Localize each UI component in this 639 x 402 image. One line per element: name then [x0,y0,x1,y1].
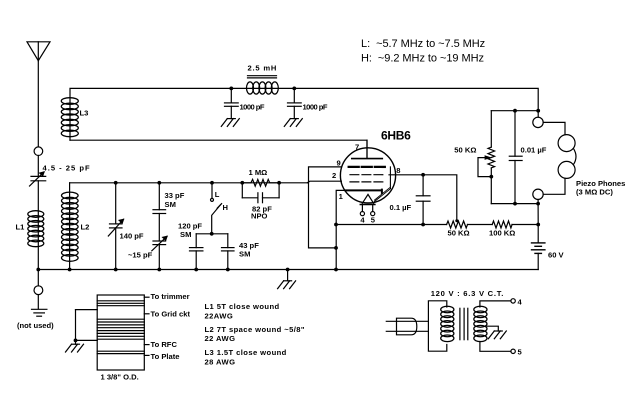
svg-text:~15 pF: ~15 pF [128,251,153,260]
not-used terminal [32,270,47,317]
wire to battery [512,224,538,226]
capacitor 140 pF variable [108,183,123,270]
wire terminal to trimmer cap [37,156,39,177]
coil form L2 turns [97,319,144,339]
antenna [27,42,50,61]
capacitor 33 pF SM [153,183,166,241]
node 0.01uF bottom [513,202,517,206]
svg-text:4: 4 [360,215,365,224]
resistor 1 Mohm grid leak [242,179,278,186]
inductor L3 [61,98,78,137]
svg-text:SM: SM [165,200,176,209]
node coil form ground [74,339,78,343]
AC plug [386,318,428,335]
capacitor 0.1 uF [416,175,430,225]
transformer label [431,289,504,298]
plate bar [352,158,383,160]
node rail x115.7 [114,268,118,272]
pin 9 wire [309,167,342,248]
svg-text:60 V: 60 V [548,251,565,260]
inductor L1 [28,211,44,247]
pot wiper [478,156,491,177]
svg-text:1: 1 [339,192,344,201]
svg-text:5: 5 [518,348,523,357]
node grid leak left [240,181,244,185]
svg-text:L: ~5.7 MHz to ~7.5 MHz: L: ~5.7 MHz to ~7.5 MHz [361,38,485,50]
node grid leak right [277,181,281,185]
svg-text:To Grid ckt: To Grid ckt [151,309,191,318]
svg-text:6HB6: 6HB6 [381,129,411,143]
suppressor tie vertical [389,167,391,189]
coil form body [97,295,144,370]
transformer primary bracket [428,301,446,351]
node rail cathode [334,268,338,272]
node choke left [229,87,233,91]
svg-text:SM: SM [239,250,250,259]
grid G2 dashed [350,174,384,176]
node rail x38 [36,268,40,272]
svg-text:0.1 µF: 0.1 µF [390,203,412,212]
phone jack top [533,111,543,128]
node rail x196.2 [194,268,198,272]
capacitor C 1000 pF left [225,88,239,118]
svg-text:1 MΩ: 1 MΩ [249,168,268,177]
node pin9/cathode join [334,246,338,250]
ground at center tap [488,331,506,339]
node 0.1uF top [421,173,425,177]
node rail x69.6 [68,268,72,272]
svg-text:L3 1.5T close wound: L3 1.5T close wound [205,348,287,357]
coil form L3 turns [97,351,144,353]
svg-text:22 AWG: 22 AWG [205,334,236,343]
svg-text:SM: SM [180,230,191,239]
battery 60 V [532,225,545,270]
node phones bottom [536,202,540,206]
node 33pF top [157,181,161,185]
svg-text:4: 4 [518,297,523,306]
secondary lead terminal 5 [480,342,515,354]
svg-text:140 pF: 140 pF [120,232,144,241]
capacitor 4.5-25 pF trimmer [30,172,46,186]
svg-text:28 AWG: 28 AWG [205,357,236,366]
node 140pF top [114,181,118,185]
svg-text:2.5 mH: 2.5 mH [248,64,278,73]
suppressor tie leaf [375,188,391,202]
antenna terminal [34,147,43,156]
wire top rail [70,88,538,140]
grid G3 dashed [349,166,385,168]
svg-text:L1: L1 [16,222,26,231]
inductor RFC 2.5 mH [247,76,279,94]
wire switch to padder caps [196,233,228,235]
wire phones network bottom [491,203,538,205]
inductor L2 [62,183,79,270]
svg-text:8: 8 [396,166,400,175]
node switch bottom [210,232,214,236]
tap to grid ckt [144,313,149,315]
pin 1 wire [336,190,345,269]
phone jack bottom [533,189,543,224]
wire antenna lead [37,61,39,147]
svg-text:NPO: NPO [251,212,268,221]
tap to RFC [144,344,149,346]
svg-text:0.01 µF: 0.01 µF [521,145,547,154]
svg-text:L2 7T space wound ~5/8": L2 7T space wound ~5/8" [205,325,305,334]
resistor 50 Kohm regen pot [447,221,468,228]
node wiper tie [489,175,493,179]
coil form L1 turns [97,301,144,306]
tube 6HB6 envelope U1 [340,148,395,203]
node rail ground tap [286,268,290,272]
node rail x227.8 [226,268,230,272]
node choke right [292,87,296,91]
tap to trimmer [144,296,149,298]
svg-text:L3: L3 [80,109,89,118]
svg-text:33 pF: 33 pF [165,191,185,200]
switch L/H band select [211,183,222,234]
svg-text:100 KΩ: 100 KΩ [489,228,515,237]
wire trimmer to L1 and bottom rail [37,181,39,270]
wire phones network top [491,110,538,112]
capacitor ~15 pF variable [152,236,167,269]
svg-text:(not used): (not used) [17,321,54,330]
wire bottom ground rail [38,269,538,271]
transformer core [460,308,468,339]
capacitor 0.01 uF [509,111,522,204]
svg-text:L2: L2 [81,222,90,231]
wire grid rail [70,182,308,184]
transformer secondary winding [474,306,487,341]
node 0.1uF bottom [421,223,425,227]
node switch top [210,181,214,185]
svg-text:L1 5T close wound: L1 5T close wound [205,302,280,311]
transformer primary winding [441,306,454,341]
capacitor 43 pF SM [222,234,235,270]
svg-text:(3 MΩ DC): (3 MΩ DC) [576,187,613,196]
wire grid rail jog [307,181,341,183]
pin 7 [366,140,368,158]
resistor 50 Kohm volume pot [488,111,495,204]
frequency note text [361,38,485,64]
svg-text:2: 2 [332,171,336,180]
svg-text:5: 5 [371,215,376,224]
ground below right 1000 pF [284,119,302,127]
svg-text:L: L [215,190,220,199]
capacitor C 1000 pF right [288,88,302,118]
svg-text:To Plate: To Plate [151,352,180,361]
ground below left 1000 pF [221,119,239,127]
ground on bottom rail [278,270,296,289]
wire between resistors [468,224,493,226]
coil form ground taps [76,310,98,341]
piezo phones [543,122,576,194]
svg-text:1000 pF: 1000 pF [240,102,265,111]
svg-text:7: 7 [355,143,359,152]
center tap wire [487,326,498,331]
pin 8 wire [389,175,457,221]
wire screen rail to pin 7 [70,140,367,158]
svg-text:H: ~9.2 MHz to ~19 MHz: H: ~9.2 MHz to ~19 MHz [361,52,484,64]
svg-text:1 3/8" O.D.: 1 3/8" O.D. [101,372,139,381]
node phones top [536,109,540,113]
node cathode rail left [334,223,338,227]
capacitor 82 pF NPO [242,183,279,203]
secondary lead terminal 4 [480,299,515,307]
capacitor 120 pF SM [190,234,203,270]
svg-text:H: H [223,203,228,212]
svg-text:50 KΩ: 50 KΩ [448,228,470,237]
beam plate bar [345,190,382,193]
node battery top [536,223,540,227]
heater [360,194,375,215]
grid G1 dashed [350,181,384,183]
coil winding notes [205,302,305,367]
svg-text:120 V : 6.3 V C.T.: 120 V : 6.3 V C.T. [431,289,504,298]
svg-text:4.5 - 25 pF: 4.5 - 25 pF [43,164,91,173]
svg-text:To trimmer: To trimmer [151,292,190,301]
svg-text:9: 9 [337,159,341,168]
svg-text:1000 pF: 1000 pF [303,102,328,111]
svg-text:22AWG: 22AWG [205,311,234,320]
svg-text:To RFC: To RFC [151,340,178,349]
node rail x159.3 [157,268,161,272]
resistor 100 Kohm [492,221,512,228]
svg-text:50 KΩ: 50 KΩ [454,146,476,155]
tap to plate [144,354,149,356]
ground at coil form [66,340,84,352]
node 0.01uF top [513,109,517,113]
wire cathode rail [336,224,447,226]
